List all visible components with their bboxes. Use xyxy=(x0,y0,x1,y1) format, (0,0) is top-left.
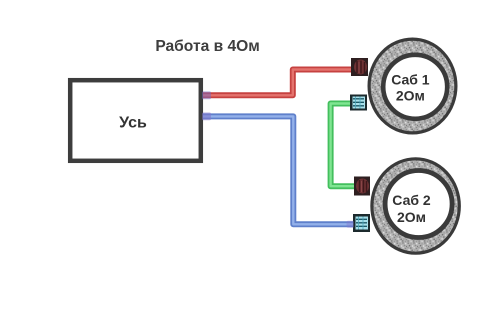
svg-text:Усь: Усь xyxy=(119,115,147,132)
speaker Sub2 xyxy=(372,159,459,253)
terminal Sub2 + (red) xyxy=(354,177,370,196)
connector dot at blue wire start xyxy=(202,113,211,121)
svg-text:Работа в 4Ом: Работа в 4Ом xyxy=(155,38,260,55)
amplifier box Усь xyxy=(70,80,201,161)
connector dot at blue wire end xyxy=(347,221,355,228)
svg-text:Саб 2: Саб 2 xyxy=(392,192,431,208)
speaker Sub1 xyxy=(369,39,456,133)
terminal Sub1 + (red) xyxy=(351,58,368,76)
wire green (Sub1 - to Sub2 +) xyxy=(331,104,355,187)
terminal Sub2 - (teal) xyxy=(353,214,370,232)
svg-text:2Ом: 2Ом xyxy=(396,88,425,104)
connector dot at red wire start xyxy=(202,91,211,99)
terminal Sub1 - (teal) xyxy=(350,95,367,111)
wire blue (amp - to Sub2 -) xyxy=(203,116,355,224)
svg-text:Саб 1: Саб 1 xyxy=(391,72,430,88)
svg-text:2Ом: 2Ом xyxy=(397,209,426,225)
wire red (amp + to Sub1 +) xyxy=(203,70,353,96)
